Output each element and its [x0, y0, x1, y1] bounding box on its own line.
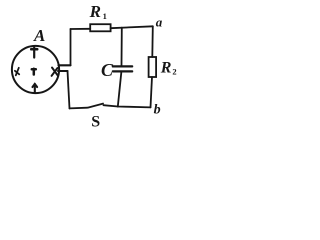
wire: right vertical lower — [151, 77, 153, 107]
wire: lower-left vertical — [68, 71, 70, 109]
wire: bottom right segment — [104, 105, 151, 107]
wire: top left segment — [71, 28, 91, 30]
mark center (pointer) — [32, 69, 36, 75]
mark right (x) — [52, 68, 58, 76]
svg-text:R: R — [89, 2, 101, 21]
wire: right vertical upper — [151, 26, 154, 57]
svg-text:S: S — [91, 113, 100, 130]
resistor R1 box — [90, 24, 110, 31]
svg-text:1: 1 — [103, 11, 107, 21]
svg-text:a: a — [156, 15, 163, 30]
wire: top right segment — [111, 26, 153, 28]
svg-text:A: A — [33, 26, 45, 45]
wire: upper-left vertical — [70, 29, 72, 65]
meter/source circle — [12, 46, 59, 93]
mark top (inner tick) — [31, 48, 37, 58]
svg-text:C: C — [101, 60, 114, 80]
wire: capacitor lower stem — [118, 73, 122, 107]
svg-text:2: 2 — [172, 67, 176, 77]
wire: upper tap from circle — [59, 64, 71, 66]
wire: bottom left segment (to switch) — [70, 107, 88, 110]
mark bottom (up arrow) — [33, 84, 38, 93]
resistor R2 box — [149, 57, 157, 77]
switch S blade — [88, 104, 103, 108]
capacitor C plates — [113, 65, 132, 67]
mark left (small x/arrow) — [15, 68, 19, 76]
wire: capacitor upper stem — [121, 28, 123, 66]
wire: lower tap from circle — [58, 70, 68, 72]
svg-text:b: b — [154, 103, 161, 118]
svg-text:R: R — [160, 60, 172, 77]
